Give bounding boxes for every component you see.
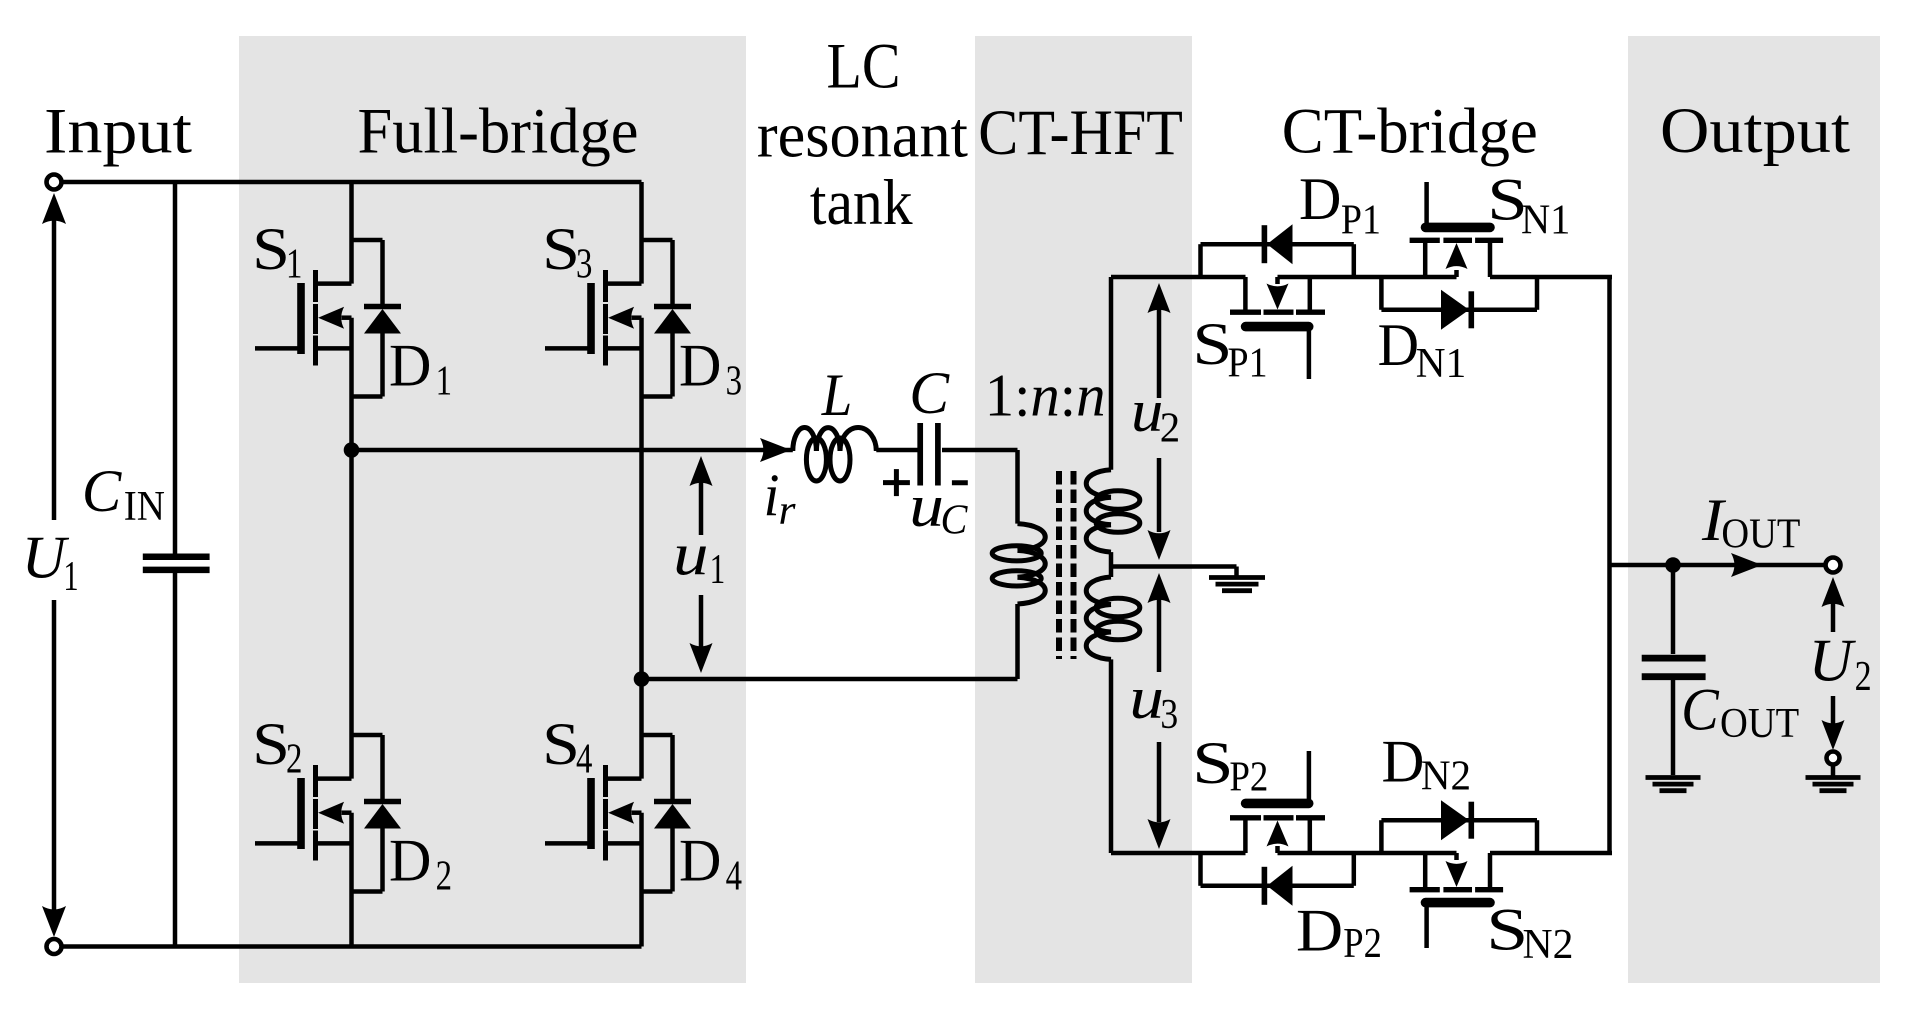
svg-text:Input: Input (44, 96, 192, 168)
svg-text:D: D (679, 333, 721, 399)
wire output line (1610, 563, 1826, 568)
svg-text:Full-bridge: Full-bridge (358, 96, 639, 168)
diode DP1 loop (1201, 224, 1354, 277)
svg-text:P2: P2 (1229, 755, 1268, 801)
svg-text:S: S (1192, 311, 1232, 377)
input terminal bottom (47, 939, 62, 954)
svg-text:LC: LC (827, 31, 901, 103)
svg-text:3: 3 (1160, 692, 1178, 738)
svg-text:1: 1 (710, 547, 726, 593)
U1 voltage arrow (42, 193, 66, 224)
mosfet SP2 (1230, 751, 1325, 853)
wire CT-bridge right leg (1607, 277, 1612, 853)
inductor L (793, 427, 877, 481)
svg-text:S: S (252, 216, 290, 282)
capacitor COUT (1671, 565, 1676, 654)
wire left leg (349, 182, 354, 284)
minus sign (952, 480, 968, 485)
svg-text:1: 1 (436, 359, 452, 405)
wire CT-bridge top rail (1111, 275, 1246, 280)
svg-text:C: C (941, 498, 969, 544)
wire CT-bridge bottom rail (1111, 851, 1246, 856)
ground COUT (1646, 775, 1701, 780)
wire center tap (1111, 564, 1237, 569)
plus sign (883, 480, 910, 485)
ground center tap (1209, 575, 1265, 580)
svg-text:1:n:n: 1:n:n (985, 363, 1106, 429)
transistor S2 with body diode D2 (255, 735, 401, 892)
svg-text:u: u (1131, 378, 1163, 444)
svg-text:4: 4 (726, 854, 742, 900)
full-bridge gray band (239, 36, 746, 983)
IOUT current arrow (1731, 553, 1762, 577)
u2 voltage arrow (1148, 283, 1171, 313)
svg-text:N1: N1 (1521, 197, 1570, 243)
node bridge midpoint B (634, 671, 650, 687)
transformer secondary winding u2 (1086, 277, 1140, 567)
ir current arrow (760, 438, 791, 462)
input terminal top (47, 175, 62, 190)
diode DN2 loop (1381, 800, 1537, 853)
U2 ground terminal (1827, 752, 1840, 765)
svg-text:S: S (542, 711, 580, 777)
diode DP2 loop (1201, 853, 1354, 906)
svg-text:i: i (764, 462, 780, 528)
svg-text:2: 2 (286, 737, 302, 783)
svg-text:u: u (909, 473, 944, 539)
wire right leg (639, 182, 644, 284)
svg-text:2: 2 (436, 854, 452, 900)
svg-text:1: 1 (63, 554, 78, 600)
transformer core (1056, 471, 1062, 659)
transistor S3 with body diode D3 (545, 240, 691, 397)
svg-text:P2: P2 (1343, 921, 1382, 967)
capacitor C (917, 423, 923, 486)
svg-text:u: u (1129, 665, 1164, 731)
mosfet SN1 (1410, 182, 1504, 277)
svg-text:OUT: OUT (1720, 701, 1799, 747)
svg-text:3: 3 (726, 359, 742, 405)
svg-text:D: D (389, 828, 431, 894)
wire top rail (62, 180, 642, 185)
svg-text:C: C (909, 360, 950, 426)
svg-text:1: 1 (286, 242, 302, 288)
output gray band (1628, 36, 1880, 983)
diode DN1 loop (1381, 277, 1537, 330)
svg-text:N1: N1 (1416, 341, 1466, 387)
svg-text:D: D (1296, 897, 1343, 963)
svg-text:D: D (389, 333, 431, 399)
svg-text:2: 2 (1855, 654, 1872, 700)
U2 voltage arrow (1822, 577, 1845, 607)
svg-text:D: D (679, 828, 721, 894)
svg-text:resonant: resonant (757, 99, 968, 171)
svg-text:D: D (1299, 166, 1341, 232)
u1 voltage arrow (690, 456, 713, 486)
svg-text:C: C (82, 458, 122, 524)
mosfet SN2 (1410, 853, 1504, 948)
u3 voltage arrow (1148, 573, 1171, 603)
svg-text:N2: N2 (1523, 922, 1574, 968)
svg-text:S: S (1192, 730, 1234, 796)
output terminal (1826, 558, 1841, 573)
svg-text:N2: N2 (1421, 754, 1471, 800)
svg-text:D: D (1382, 729, 1425, 795)
svg-text:S: S (542, 216, 580, 282)
svg-text:S: S (252, 711, 290, 777)
transistor S4 with body diode D4 (545, 735, 691, 892)
transformer primary winding (992, 450, 1045, 679)
mosfet SP1 (1230, 277, 1325, 379)
svg-text:CT-bridge: CT-bridge (1282, 96, 1538, 168)
wire bottom rail (62, 944, 642, 949)
wire tank bottom (642, 677, 1018, 682)
svg-text:u: u (673, 521, 708, 587)
svg-text:2: 2 (1160, 406, 1180, 452)
wire tank top (352, 448, 793, 453)
capacitor CIN (173, 182, 178, 554)
svg-text:r: r (779, 488, 797, 534)
svg-text:D: D (1378, 312, 1419, 378)
svg-text:4: 4 (576, 737, 592, 783)
node bridge midpoint A (344, 442, 360, 458)
ground U2 (1831, 765, 1836, 776)
svg-text:P1: P1 (1228, 340, 1268, 386)
transistor S1 with body diode D1 (255, 240, 401, 397)
svg-text:CT-HFT: CT-HFT (978, 97, 1183, 169)
svg-text:IN: IN (124, 484, 165, 530)
svg-text:3: 3 (576, 242, 592, 288)
CT-HFT gray band (975, 36, 1192, 983)
svg-text:Output: Output (1660, 95, 1850, 167)
svg-text:L: L (821, 362, 852, 428)
svg-text:U: U (1809, 628, 1857, 694)
svg-text:OUT: OUT (1721, 511, 1800, 557)
transformer secondary winding u3 (1086, 567, 1140, 854)
svg-text:C: C (1681, 677, 1720, 743)
node output junction (1665, 557, 1681, 573)
svg-text:tank: tank (810, 167, 913, 239)
svg-text:P1: P1 (1341, 197, 1381, 243)
